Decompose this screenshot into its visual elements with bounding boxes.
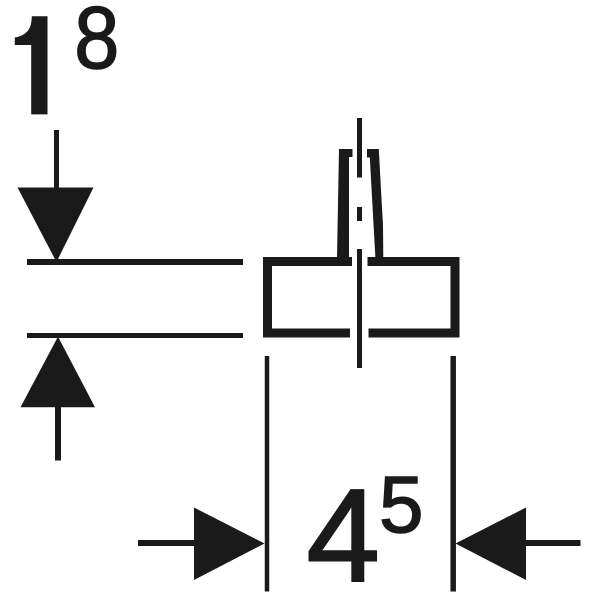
- svg-text:5: 5: [379, 460, 424, 549]
- svg-text:8: 8: [74, 0, 119, 87]
- svg-text:4: 4: [307, 462, 380, 600]
